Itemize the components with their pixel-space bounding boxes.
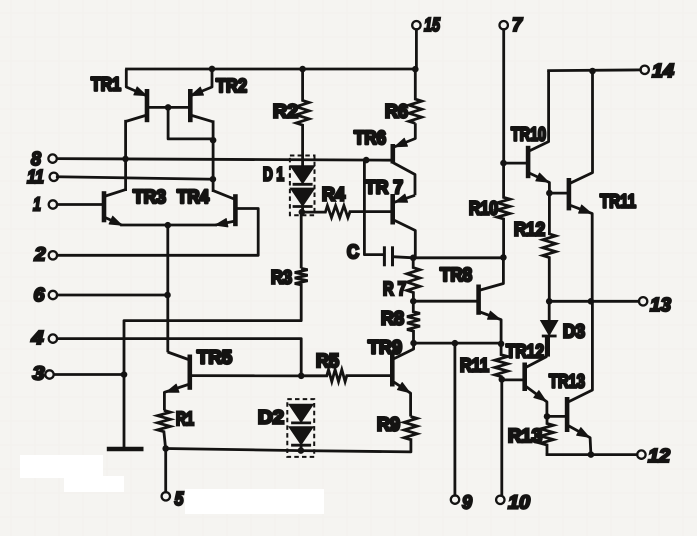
wire: pin 6 row (57, 294, 167, 297)
svg-text:R12: R12 (514, 220, 545, 241)
transistor TR13 (549, 301, 592, 454)
wire: bottom emitter rail (166, 440, 411, 452)
svg-text:R8: R8 (381, 309, 404, 330)
wire: TR1-TR2 base link (147, 106, 190, 109)
transistor TR5 (164, 348, 232, 411)
wire: C node line to TR8 collector node (413, 256, 503, 259)
wire: TR1/TR3 collector vertical (124, 121, 127, 189)
transistor TR12 (506, 336, 547, 416)
svg-text:TR9: TR9 (368, 338, 402, 359)
svg-text:TR10: TR10 (511, 125, 546, 146)
wire: pin 4 row down to node (57, 339, 301, 376)
svg-text:R6: R6 (385, 102, 408, 123)
svg-text:14: 14 (652, 61, 674, 82)
resistor R2 (273, 69, 309, 166)
resistor R7 (383, 258, 420, 301)
node: pin9 tap (452, 340, 459, 347)
wire: base loop to TR2 collector (168, 107, 213, 138)
wire: TR11 base wire (549, 192, 569, 195)
node: pin11 / TR4 collector (210, 176, 217, 183)
wire: TR10 base wire (504, 162, 528, 165)
svg-text:1: 1 (33, 195, 41, 216)
capacitor C (347, 242, 413, 266)
transistor TR4 (177, 187, 235, 227)
svg-text:R5: R5 (316, 351, 339, 372)
svg-text:R10: R10 (469, 199, 498, 220)
svg-text:3: 3 (33, 364, 45, 385)
svg-text:R4: R4 (322, 185, 345, 206)
svg-text:TR8: TR8 (440, 265, 472, 286)
node: pin6 / tail (164, 292, 171, 299)
terminal 1 (33, 195, 57, 216)
terminal 14 (641, 61, 675, 82)
wire: pin 5 drop (164, 449, 167, 493)
node: rail / pin15 / R6 (412, 66, 419, 73)
terminal 4 (30, 328, 57, 349)
wire: pin 9 drop (453, 343, 456, 495)
node: TR10 emitter / TR11 base / R12 (546, 190, 553, 197)
node: D1 / R4 (299, 209, 306, 216)
wire: TR13 base wire (547, 415, 567, 418)
resistor R9 (377, 415, 417, 440)
transistor TR1 (91, 69, 147, 122)
terminal 7 (500, 15, 524, 36)
wire: TR12 base wire (502, 378, 525, 381)
node: TR2 collector tie (210, 137, 217, 144)
whiteout patch lower-left (20, 455, 103, 478)
resistor R10 (469, 163, 510, 257)
node: TR5 base / R5 / pin4 (298, 373, 305, 380)
resistor R1 (157, 409, 194, 449)
node: output / TR11 emitter / TR13 collector (588, 298, 595, 305)
wire: pin 3 branch up to R3 bottom (124, 285, 301, 375)
wire: R8 bottom row (414, 342, 502, 345)
node: R11 / TR12 base / pin10 (499, 376, 506, 383)
terminal 12 (637, 446, 670, 467)
transistor TR8 (440, 257, 503, 343)
whiteout patch bottom-middle (185, 489, 324, 514)
terminal 9 (451, 493, 473, 514)
svg-text:TR12: TR12 (506, 342, 544, 363)
node: rail / TR2 emitter (209, 66, 216, 73)
svg-text:2: 2 (33, 245, 45, 266)
resistor R11 (460, 344, 508, 380)
wire: pin 14 row (549, 69, 641, 72)
svg-text:R11: R11 (460, 356, 489, 377)
svg-text:D3: D3 (563, 322, 585, 343)
svg-text:10: 10 (508, 493, 530, 514)
svg-text:TR1: TR1 (91, 75, 121, 96)
wire: TR5 base wire (190, 374, 301, 377)
node: R8 / TR9 collector (410, 340, 417, 347)
wire: pin 8 row to TR6 base (57, 159, 392, 161)
svg-text:9: 9 (462, 493, 472, 514)
wire: pin 15 stem (415, 30, 418, 70)
resistor R5 (301, 351, 392, 382)
terminal 6 (34, 285, 58, 306)
diode D1 (dual, dashed package box) (263, 156, 315, 216)
terminal 5 (162, 489, 184, 510)
node: output / R12 / D3 (546, 298, 553, 305)
transistor TR10 (511, 71, 549, 194)
svg-text:TR11: TR11 (600, 192, 636, 213)
diode D2 (dual, dashed package box) (258, 399, 314, 457)
svg-text:TR6: TR6 (354, 128, 386, 149)
svg-text:TR 7: TR 7 (365, 178, 403, 199)
wire: pin 11 row (57, 177, 213, 179)
svg-text:TR5: TR5 (197, 348, 232, 369)
wire: pin 1 to TR3 base (57, 203, 104, 206)
transistor TR6 (354, 123, 415, 195)
wire: diff pair tail vertical (166, 225, 169, 351)
svg-text:R2: R2 (273, 102, 298, 123)
wire: pin 7 stem (502, 30, 505, 164)
node: TR12 emitter / R13 / TR13 base (544, 413, 551, 420)
terminal 2 (33, 245, 57, 266)
svg-text:R 7: R 7 (383, 279, 406, 300)
svg-text:R13: R13 (508, 426, 542, 447)
wire: pin 2 row up to TR4 base (57, 209, 258, 256)
ground (107, 447, 144, 451)
wire: output row to pin 13 (549, 300, 639, 303)
terminal 15 (412, 15, 440, 36)
svg-text:R9: R9 (377, 415, 400, 436)
terminal 3 (33, 364, 54, 385)
node: R10 / TR8 collector (500, 254, 507, 261)
svg-text:TR3: TR3 (133, 187, 166, 208)
svg-text:TR2: TR2 (216, 76, 247, 97)
node: pin7 / TR10 base (500, 160, 507, 167)
transistor TR3 (104, 187, 166, 225)
resistor R13 (508, 416, 554, 454)
resistor R3 (271, 212, 308, 288)
wire: top supply rail (127, 68, 416, 71)
svg-text:5: 5 (175, 489, 184, 510)
svg-text:6: 6 (34, 285, 45, 306)
node: R1 / rail / pin5 (162, 445, 169, 452)
node: TR1 TR2 base tie (165, 104, 172, 111)
terminal 11 (27, 167, 58, 188)
transistor TR11 (569, 71, 636, 301)
svg-text:TR4: TR4 (177, 187, 209, 208)
wire: TR8 base wire (413, 300, 477, 303)
svg-text:R3: R3 (271, 268, 292, 289)
transistor TR2 (190, 69, 247, 122)
node: R7 R8 / TR8 base (410, 298, 417, 305)
wire: TR2 collector vertical (212, 122, 215, 191)
wire: pin 3 row (54, 373, 124, 376)
node: pin8 / TR6 TR7 base tie (363, 157, 370, 164)
svg-text:TR13: TR13 (549, 372, 585, 393)
svg-text:4: 4 (30, 328, 44, 349)
wire: TR3 TR4 emitter bus (122, 224, 216, 227)
wire: TR6/TR7 base tie down to capacitor (364, 160, 383, 255)
node: D2 / rail (298, 447, 305, 454)
node: pin14 / TR11 collector (589, 68, 596, 75)
wire: pin 3 branch down to ground (123, 375, 126, 448)
svg-text:12: 12 (648, 446, 670, 467)
node: pin8 / TR1 TR3 collectors (122, 156, 129, 163)
svg-text:7: 7 (512, 15, 523, 36)
resistor R4 (301, 185, 391, 218)
terminal 10 (496, 493, 530, 514)
svg-text:D 1: D 1 (263, 165, 284, 186)
svg-text:D2: D2 (258, 408, 284, 429)
resistor R8 (381, 301, 420, 343)
node: TR3 TR4 emitters (165, 222, 172, 229)
svg-text:R1: R1 (176, 409, 194, 430)
node: rail / R2 (299, 66, 306, 73)
node: C / TR7 / R7 (410, 254, 417, 261)
diode D3 (541, 301, 585, 356)
terminal 8 (31, 149, 57, 170)
node: TR13 emitter / pin12 (588, 451, 595, 458)
node: TR8 emitter / R11 (498, 341, 505, 348)
svg-text:11: 11 (27, 167, 44, 188)
wire: bottom row to pin 12 (547, 453, 637, 456)
resistor R12 (514, 193, 556, 301)
transistor TR9 (368, 338, 414, 417)
resistor R6 (385, 69, 422, 123)
terminal 13 (639, 295, 672, 316)
svg-text:15: 15 (424, 15, 440, 36)
node: pin3 branch (121, 371, 128, 378)
svg-text:13: 13 (650, 295, 671, 316)
svg-text:C: C (347, 242, 359, 263)
wire: pin 10 drop (500, 379, 503, 495)
transistor TR7 (365, 178, 415, 258)
